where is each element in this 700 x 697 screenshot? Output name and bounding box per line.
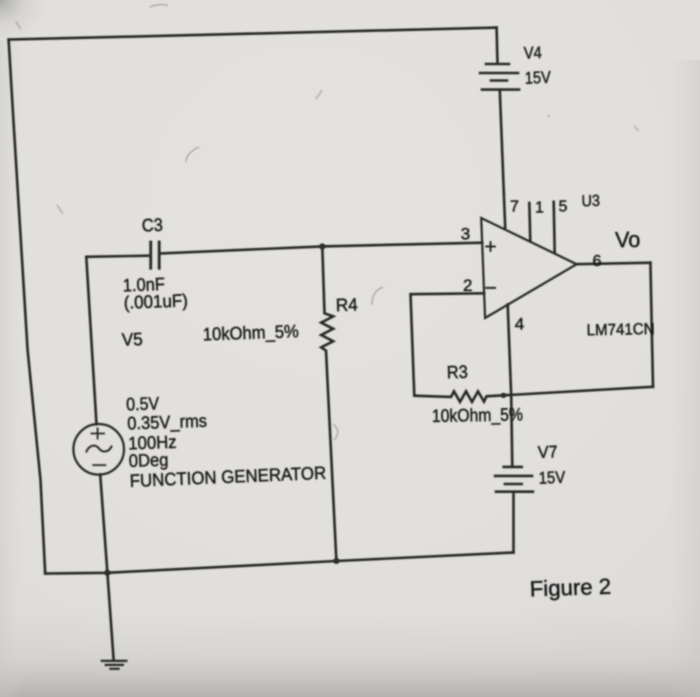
wire V4 top drop — [495, 28, 498, 64]
svg-text:7: 7 — [510, 198, 519, 215]
svg-text:LM741CN: LM741CN — [587, 321, 655, 339]
svg-text:U3: U3 — [581, 193, 600, 210]
svg-text:15V: 15V — [538, 468, 566, 488]
resistor R4 — [321, 246, 336, 561]
svg-text:Vo: Vo — [615, 227, 641, 252]
svg-text:15V: 15V — [524, 68, 551, 88]
wire top (node V4+ to top-left corner) — [9, 28, 497, 40]
wire pin3 input (C3 to + input) — [162, 243, 483, 254]
svg-text:V5: V5 — [121, 329, 143, 350]
wire pin6 output — [577, 263, 651, 265]
junction R3/pin4 — [501, 393, 506, 398]
wire pin2 feedback left — [411, 293, 485, 395]
pin 1 stub (U3) — [529, 203, 530, 241]
svg-text:0.35V_rms: 0.35V_rms — [127, 411, 207, 435]
junction R4/ground rail — [333, 558, 339, 564]
svg-text:10kOhm_5%: 10kOhm_5% — [432, 404, 523, 427]
svg-text:0Deg: 0Deg — [128, 450, 168, 471]
stray pencil marks — [16, 5, 639, 440]
svg-text:C3: C3 — [141, 215, 163, 236]
pin 5 stub (U3) — [554, 202, 555, 253]
svg-text:R3: R3 — [446, 362, 468, 383]
svg-text:R4: R4 — [335, 295, 358, 316]
svg-text:V4: V4 — [523, 43, 542, 63]
battery V7 — [495, 467, 533, 492]
V5 minus sign — [93, 464, 105, 466]
op-amp U3 triangle — [481, 218, 576, 318]
resistor R3 — [414, 387, 653, 402]
capacitor C3 plates — [151, 242, 160, 268]
svg-text:2: 2 — [463, 276, 472, 295]
op-amp minus sign — [486, 287, 495, 289]
svg-text:1: 1 — [535, 199, 544, 216]
battery V4 — [480, 64, 519, 90]
junction C3/R4/pin3 — [319, 243, 325, 249]
svg-text:V7: V7 — [537, 442, 557, 462]
V5 plus sign — [92, 428, 105, 438]
svg-text:5: 5 — [559, 198, 568, 215]
svg-text:Figure 2: Figure 2 — [529, 574, 611, 602]
V5 sine squiggle — [87, 446, 112, 452]
svg-text:3: 3 — [461, 224, 470, 243]
wire V5 branch down — [86, 257, 96, 425]
svg-text:0.5V: 0.5V — [126, 393, 160, 414]
svg-text:6: 6 — [593, 253, 602, 270]
wire C3 left — [86, 256, 148, 257]
wire left outer — [9, 40, 46, 574]
wire ground stem — [107, 573, 113, 660]
svg-text:(.001uF): (.001uF) — [123, 290, 188, 312]
wire V7 to ground rail — [512, 493, 515, 553]
op-amp plus sign — [486, 242, 495, 251]
ground symbol — [102, 661, 127, 669]
junction V5/ground rail — [104, 570, 110, 576]
wire V4 to opamp pin7 — [500, 91, 505, 228]
wire pin4 to V7 — [508, 305, 513, 467]
source V5 circle — [73, 424, 124, 475]
wire bottom (ground rail) — [45, 553, 513, 574]
wire feedback right vertical — [650, 263, 653, 387]
wire V5 to ground rail — [100, 475, 107, 573]
svg-text:4: 4 — [515, 315, 524, 334]
